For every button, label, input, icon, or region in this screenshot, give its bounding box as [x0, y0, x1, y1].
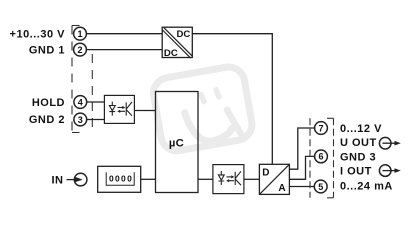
- output symbol U OUT: [379, 137, 400, 149]
- wire input stage to µC: [141, 178, 156, 180]
- wire optocoupler 1 to µC: [134, 110, 155, 112]
- svg-text:2: 2: [77, 45, 82, 55]
- optocoupler 1: [104, 95, 134, 123]
- optocoupler 2: [213, 165, 244, 194]
- terminal 3: [74, 113, 87, 126]
- terminal 1: [74, 27, 87, 40]
- svg-text:HOLD: HOLD: [32, 97, 65, 109]
- wire terminal 3 to optocoupler 1: [86, 119, 104, 121]
- microcontroller µC: [156, 92, 199, 193]
- D/A converter: [259, 164, 289, 194]
- svg-text:1: 1: [77, 29, 82, 39]
- wire DC/DC output to D/A top: [192, 34, 272, 165]
- svg-text:IN: IN: [52, 175, 64, 187]
- wire D/A to terminal 7: [289, 128, 314, 169]
- wire terminal 2 to DC/DC: [86, 49, 162, 51]
- svg-text:6: 6: [318, 152, 323, 162]
- dashed housing outline left (terminal strip): [72, 26, 92, 133]
- output symbol I OUT: [379, 165, 400, 177]
- svg-text:4: 4: [78, 97, 83, 107]
- svg-text:DC: DC: [176, 29, 190, 40]
- wire terminal 4 to optocoupler 1: [86, 101, 104, 103]
- wire D/A to terminal 5: [289, 186, 314, 188]
- svg-text:+10...30 V: +10...30 V: [10, 29, 66, 41]
- wire terminal 1 to DC/DC: [86, 33, 162, 35]
- wire optocoupler 2 to D/A: [244, 178, 260, 180]
- terminal 2: [74, 43, 87, 56]
- dashed housing outline right (terminal strip): [310, 118, 334, 198]
- svg-text:7: 7: [318, 123, 323, 133]
- svg-text:0...24 mA: 0...24 mA: [340, 181, 393, 193]
- svg-text:GND 2: GND 2: [29, 114, 65, 126]
- input symbol IN: [67, 173, 87, 186]
- svg-text:3: 3: [78, 115, 83, 125]
- terminal 7: [315, 122, 328, 135]
- svg-text:GND 1: GND 1: [29, 45, 65, 57]
- svg-text:I OUT: I OUT: [340, 166, 372, 178]
- svg-text:0000: 0000: [109, 174, 133, 184]
- DC/DC converter: [162, 27, 192, 59]
- wire D/A to terminal 6: [289, 156, 314, 179]
- svg-text:µC: µC: [169, 137, 184, 149]
- terminal 6: [315, 150, 328, 163]
- svg-text:A: A: [278, 183, 285, 194]
- svg-text:DC: DC: [164, 48, 178, 59]
- wire µC to optocoupler 2: [198, 178, 213, 180]
- terminal 4: [74, 96, 87, 109]
- svg-text:0...12 V: 0...12 V: [340, 123, 382, 135]
- svg-text:5: 5: [318, 182, 323, 192]
- input stage (0000 display): [98, 166, 141, 192]
- terminal 5: [314, 180, 327, 193]
- svg-text:D: D: [262, 168, 269, 179]
- svg-text:U OUT: U OUT: [340, 137, 377, 149]
- svg-text:GND 3: GND 3: [340, 151, 376, 163]
